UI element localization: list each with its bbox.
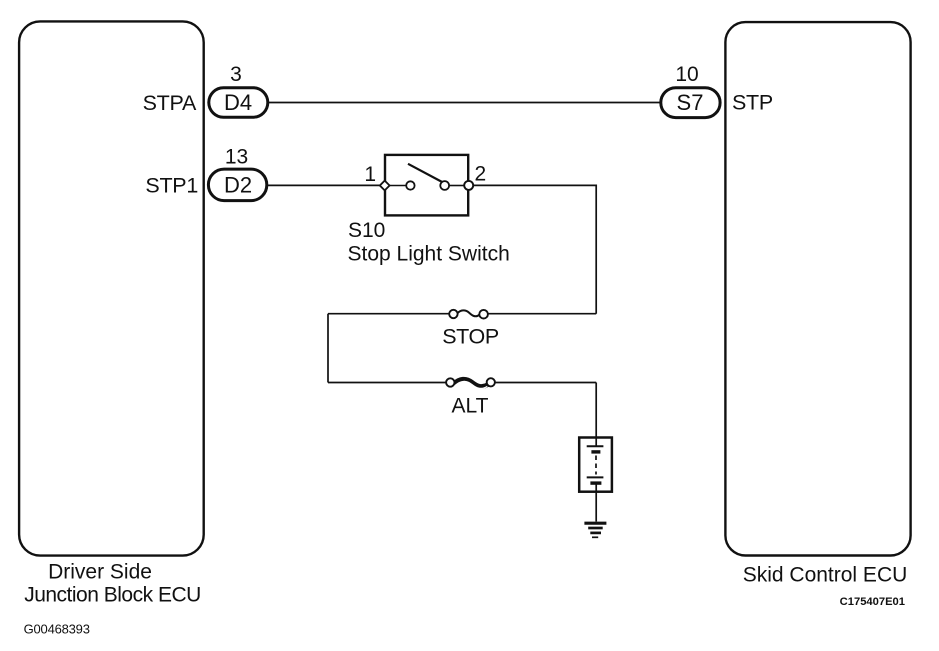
wire STPA D4 to S7 [268,102,660,104]
svg-text:3: 3 [230,63,242,86]
svg-text:D4: D4 [224,90,252,115]
Skid Control ECU box [725,22,910,555]
wire battery to ground [595,483,597,522]
wire ALT row to battery [595,383,597,447]
svg-text:STOP: STOP [442,325,499,349]
switch contact circle left [406,181,414,189]
svg-text:G00468393: G00468393 [24,622,90,637]
connector D2 [208,169,266,201]
pin 1 diamond terminal [380,181,390,191]
svg-text:Stop Light Switch: Stop Light Switch [348,243,510,266]
wire STP1 D2 to switch pin 1 [268,184,381,186]
wire left vertical STOP to ALT [327,314,329,383]
svg-text:STP1: STP1 [145,174,198,198]
svg-text:D2: D2 [224,173,252,198]
connector D4 [209,88,268,118]
svg-text:STP: STP [732,91,773,115]
switch contact circle right [440,181,449,190]
svg-text:13: 13 [225,146,248,169]
svg-text:S10: S10 [348,219,385,242]
svg-text:STPA: STPA [143,91,197,115]
svg-text:ALT: ALT [452,395,489,418]
wire STOP row [328,313,450,315]
switch S10 box [385,155,468,216]
wire ALT row [328,382,446,384]
fusible link ALT [446,378,495,388]
svg-text:Driver Side: Driver Side [48,561,152,584]
wire switch pin2 to right vertical [473,185,596,313]
battery [579,438,612,492]
svg-text:2: 2 [475,163,487,186]
ground [584,523,606,537]
svg-text:1: 1 [364,163,376,186]
svg-text:S7: S7 [677,90,704,115]
wire diamond to contact [389,185,407,187]
svg-text:Skid Control ECU: Skid Control ECU [743,564,908,587]
svg-text:10: 10 [675,63,698,86]
connector S7 [661,88,720,118]
svg-text:C175407E01: C175407E01 [840,596,905,608]
svg-text:Junction Block ECU: Junction Block ECU [24,584,201,607]
pin 2 circle terminal [464,181,473,190]
wire contact to pin 2 [449,185,465,187]
Driver Side Junction Block ECU box [19,21,204,555]
switch blade [408,164,444,183]
fuse STOP [449,310,488,319]
